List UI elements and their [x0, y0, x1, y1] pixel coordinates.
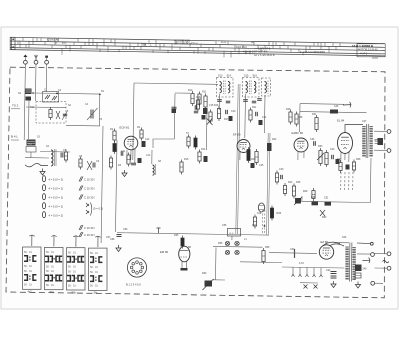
tube ECH81 B4	[124, 136, 138, 150]
svg-text:R20: R20	[251, 158, 256, 161]
tone blob R48	[312, 201, 319, 205]
aerial coil S1	[25, 89, 32, 95]
switch wafer S6c	[89, 248, 108, 290]
fuse	[355, 273, 361, 278]
svg-text:50 · 01: 50 · 01	[68, 271, 76, 274]
osc extra blob	[202, 115, 206, 120]
dial lamp L4	[235, 250, 239, 254]
svg-text:R60: R60	[202, 272, 207, 275]
svg-text:C 10 30 /: C 10 30 /	[84, 196, 95, 200]
wave switch contacts Sa	[43, 92, 59, 103]
svg-text:S6b: S6b	[72, 291, 77, 294]
osc branch blob	[172, 109, 177, 114]
svg-text:L1-4: L1-4	[229, 233, 234, 235]
long vert pair x238	[236, 84, 238, 234]
smoothing caps	[331, 271, 337, 273]
svg-text:R26: R26	[286, 108, 291, 111]
ground smoothing	[333, 281, 335, 284]
resistor R25	[292, 186, 295, 196]
junction	[264, 225, 266, 227]
box S2 shield	[36, 102, 66, 124]
trimmer C3	[62, 110, 68, 120]
cathode blob	[251, 163, 255, 168]
resistor R20	[247, 150, 250, 161]
svg-text:B 1 2 3 4 5 6: B 1 2 3 4 5 6	[126, 283, 141, 287]
ground below S4	[42, 169, 44, 172]
heater taps	[292, 267, 294, 274]
svg-text:50 · 01: 50 · 01	[24, 251, 32, 254]
cluster C30	[275, 173, 278, 182]
svg-text:50 · 01: 50 · 01	[90, 266, 98, 269]
svg-text:R21: R21	[252, 106, 257, 109]
dial scale tick marks	[17, 41, 19, 44]
svg-text:19.0 19.0: 19.0 19.0	[236, 45, 247, 49]
resistor R15	[180, 162, 183, 172]
svg-text:C 10 30 /: C 10 30 /	[84, 178, 95, 182]
svg-text:R38: R38	[356, 158, 361, 161]
aerial terminal A1	[23, 55, 27, 58]
svg-text:C46: C46	[334, 105, 339, 108]
svg-text:C25: C25	[259, 164, 264, 167]
EABC80 pins	[297, 152, 299, 161]
wire osc vert	[205, 110, 208, 150]
tone network wire	[302, 201, 371, 202]
HT bar symbol	[294, 249, 296, 258]
svg-text:E 2/16 h FURWERKE: E 2/16 h FURWERKE	[300, 50, 325, 54]
power transformer S30	[348, 243, 351, 282]
svg-text:C30: C30	[279, 168, 284, 171]
resistor R40	[312, 191, 315, 199]
svg-text:R65: R65	[174, 234, 179, 237]
resistor R6	[113, 144, 116, 152]
resistor R21	[255, 152, 258, 163]
svg-text:R16: R16	[214, 104, 219, 107]
svg-text:WITH 9/4 ROVED H: WITH 9/4 ROVED H	[174, 42, 198, 46]
rail wire y83	[134, 83, 218, 84]
svg-text:B: B	[55, 41, 57, 45]
wire pair x29	[27, 100, 30, 139]
svg-text:R25: R25	[296, 181, 301, 184]
wire plate to transformer	[345, 125, 363, 133]
earth terminal A3	[45, 56, 48, 58]
svg-text:50 · 01: 50 · 01	[68, 266, 76, 269]
tube EABC80 B6	[294, 138, 308, 152]
svg-text:R55: R55	[218, 242, 223, 245]
svg-text:R40: R40	[303, 190, 308, 193]
svg-text:4 = 5 (0 = 2): 4 = 5 (0 = 2)	[49, 205, 64, 209]
screen resistor on bus	[267, 143, 272, 151]
feedback wire y112	[300, 112, 367, 113]
cap C7	[120, 151, 122, 156]
svg-text:C 10 30 /: C 10 30 /	[84, 187, 95, 191]
below IFT1 resistors	[217, 109, 220, 119]
volume pot R33	[319, 151, 322, 164]
svg-text:11 A: 11 A	[221, 40, 226, 44]
wire y107	[26, 106, 66, 109]
wire y158	[25, 157, 49, 159]
ground C66	[118, 245, 120, 248]
svg-text:50 · 01: 50 · 01	[68, 284, 76, 287]
EL84 pins	[340, 152, 342, 162]
wire S3 down	[30, 152, 32, 158]
long vert pair x268	[267, 133, 269, 235]
transformer top terminal	[370, 242, 373, 245]
svg-text:C66: C66	[123, 228, 128, 231]
svg-text:C 10 30 /: C 10 30 /	[84, 233, 95, 237]
svg-text:50 · 01: 50 · 01	[24, 265, 32, 268]
EF89 pin wires	[239, 152, 241, 160]
dashed pair	[261, 210, 263, 233]
mains terminal right bottom	[387, 266, 391, 270]
wire vert x300	[299, 104, 302, 132]
capacitor C12	[194, 105, 196, 110]
resistor R12	[204, 96, 207, 107]
heater bus y268	[282, 267, 345, 268]
svg-text:R31: R31	[312, 113, 317, 116]
svg-text:6,3V: 6,3V	[299, 262, 304, 265]
wire y126	[66, 124, 100, 127]
svg-text:SSA: SSA	[141, 42, 146, 46]
blob C41	[336, 159, 340, 164]
osc loop left vert	[133, 83, 134, 160]
svg-text:C51: C51	[324, 196, 329, 199]
osc extra cap	[194, 110, 198, 112]
cap C13	[172, 106, 177, 108]
cap C36	[313, 141, 315, 146]
tube EL84 B7	[338, 133, 353, 154]
aerial coil tap	[26, 97, 32, 101]
svg-text:C 10 30 /: C 10 30 /	[84, 226, 95, 230]
osc branch vert x175	[173, 94, 176, 134]
detector coil S18	[258, 203, 264, 212]
speaker terminals	[387, 130, 391, 134]
tube socket view B9	[127, 258, 146, 277]
magic eye feed resistor	[181, 238, 184, 246]
dial lamp L2	[235, 241, 239, 245]
svg-text:EL 84: EL 84	[337, 119, 345, 123]
HT wire y253	[269, 252, 317, 255]
chassis dashed border	[6, 67, 385, 298]
resistor R8	[140, 130, 143, 138]
svg-text:R24: R24	[288, 181, 293, 184]
resistor R7	[127, 155, 130, 164]
svg-text:S1b: S1b	[30, 106, 35, 109]
resistor R24	[283, 186, 286, 194]
svg-text:S6a: S6a	[50, 291, 55, 294]
padder caps	[60, 153, 62, 158]
svg-text:4 = 5 (0 = 2): 4 = 5 (0 = 2)	[49, 178, 64, 182]
coil S2 cluster	[49, 110, 52, 118]
svg-text:S13: S13	[218, 75, 223, 78]
ground selector	[357, 282, 359, 285]
svg-text:MOTOR 9.5 R 40: MOTOR 9.5 R 40	[358, 49, 378, 52]
vert to pot	[215, 248, 218, 281]
svg-text:EM 80: EM 80	[160, 250, 169, 254]
svg-text:R58: R58	[265, 246, 270, 249]
rectifier top leads	[323, 242, 344, 246]
cluster R27	[253, 217, 256, 226]
osc coil S7	[187, 137, 190, 146]
svg-text:C36: C36	[310, 138, 315, 141]
svg-text:R37: R37	[337, 158, 342, 161]
svg-text:EF 89: EF 89	[233, 133, 241, 137]
resistor R11	[198, 94, 201, 104]
svg-text:R14: R14	[201, 148, 206, 151]
svg-text:C20: C20	[231, 110, 236, 113]
output transformer S24	[365, 124, 368, 158]
tube pins wires	[126, 150, 128, 163]
svg-text:S15: S15	[244, 75, 249, 78]
svg-text:50 · 01: 50 · 01	[46, 270, 54, 273]
svg-text:ECH 81: ECH 81	[120, 126, 130, 130]
blob grid cap	[142, 141, 146, 147]
svg-text:C11: C11	[121, 150, 126, 153]
svg-text:R10: R10	[188, 89, 193, 92]
transformer top lead	[334, 242, 349, 244]
curved return wire	[25, 163, 48, 166]
svg-text:4 = 5 (0 = 2): 4 = 5 (0 = 2)	[49, 196, 64, 200]
dial scale left box	[10, 37, 15, 49]
svg-text:C12: C12	[145, 138, 150, 141]
svg-text:R50: R50	[322, 216, 327, 219]
svg-text:A20 34 2 97 %2F 5%: A20 34 2 97 %2F 5%	[243, 50, 268, 54]
svg-text:C24: C24	[262, 116, 267, 119]
x marks	[304, 285, 308, 289]
bass pot	[295, 198, 301, 204]
svg-text:S14: S14	[227, 75, 232, 78]
resistor R34	[325, 153, 328, 165]
below IFT2 resistors	[249, 110, 252, 120]
svg-text:50 · 01: 50 · 01	[46, 265, 54, 268]
svg-text:C66: C66	[110, 238, 115, 241]
resistor R14	[198, 152, 201, 161]
dial lamp L1	[225, 241, 229, 245]
IF transformer S13/S14	[217, 78, 234, 98]
switch wafer S6b	[67, 248, 86, 290]
svg-text:TS 2: TS 2	[12, 104, 19, 108]
svg-text:50 · 01: 50 · 01	[46, 284, 54, 287]
tube EF89 B5	[237, 140, 250, 153]
svg-text:C67: C67	[106, 236, 111, 239]
third IF coil	[262, 78, 271, 96]
svg-text:4 = 5 (0 = 2): 4 = 5 (0 = 2)	[49, 214, 64, 218]
svg-text:R17: R17	[224, 118, 229, 121]
dial scale band	[10, 37, 385, 43]
blob grid	[138, 158, 142, 163]
svg-text:42 V 6 4/0 48 R B: 42 V 6 4/0 48 R B	[254, 53, 275, 57]
feedback blob	[330, 110, 338, 114]
svg-text:S16: S16	[253, 75, 258, 78]
resistor R10	[191, 94, 194, 104]
wire y262	[240, 261, 282, 264]
svg-text:4 = 5 (0 = 2): 4 = 5 (0 = 2)	[49, 187, 64, 191]
mains terminal mid	[371, 253, 375, 257]
band right text block	[357, 44, 385, 57]
wire grid top	[33, 93, 100, 94]
cap C66	[117, 234, 122, 236]
resistor R31 top	[315, 118, 318, 130]
EM80 pins	[181, 262, 183, 268]
wire avc y233	[117, 233, 269, 235]
svg-text:C62: C62	[326, 269, 331, 272]
legend brace group	[86, 203, 89, 207]
svg-text:C56: C56	[222, 224, 227, 227]
svg-text:R30: R30	[277, 212, 282, 215]
svg-text:S18: S18	[257, 212, 262, 215]
svg-text:R33: R33	[318, 145, 323, 148]
band coil block S3	[27, 140, 36, 146]
bus wire down x103	[101, 126, 103, 243]
det cluster resistors	[289, 112, 292, 122]
phono arrow	[343, 104, 351, 106]
bus wire down x117	[116, 140, 118, 232]
svg-text:4x5: 4x5	[28, 291, 33, 294]
svg-text:50 · 01: 50 · 01	[90, 252, 98, 255]
svg-text:R11: R11	[202, 91, 207, 94]
svg-text:677: 677	[62, 41, 67, 45]
variable capacitor C4	[90, 110, 92, 119]
mains terminal right top	[387, 252, 391, 256]
svg-text:C14: C14	[146, 154, 151, 157]
tone sub cluster	[320, 210, 325, 216]
coil legend column 2	[79, 177, 83, 182]
blob C44	[346, 165, 350, 170]
aerial terminal A2	[35, 55, 37, 61]
rectifier tube EZ80 B10	[319, 245, 333, 259]
svg-text:4Y R 2: 4Y R 2	[360, 53, 368, 56]
svg-text:50 · 01: 50 · 01	[90, 271, 98, 274]
tone blob C51	[325, 202, 332, 206]
svg-text:13 R 1 20838 B: 13 R 1 20838 B	[352, 44, 374, 48]
svg-text:50 · 01: 50 · 01	[90, 285, 98, 288]
wire vert right	[98, 94, 101, 126]
trimmers H	[79, 159, 82, 167]
svg-text:R22: R22	[272, 138, 277, 141]
coupling cap C40	[331, 155, 333, 159]
wire vert x152	[151, 150, 153, 164]
resistor R38	[352, 162, 355, 170]
svg-text:(2): (2)	[251, 40, 254, 44]
svg-text:EABC 80: EABC 80	[292, 131, 304, 135]
resistor R58	[262, 251, 265, 262]
mains wave symbol	[383, 260, 389, 263]
mixer out cluster	[196, 100, 199, 109]
pot wires	[213, 279, 225, 281]
dial lamp box	[228, 229, 241, 237]
svg-text:50 · 01: 50 · 01	[24, 284, 32, 287]
aux terminal bottom	[371, 281, 375, 285]
legend extra rows	[79, 225, 83, 230]
secondary return vert	[369, 158, 372, 203]
svg-text:C47: C47	[362, 120, 367, 123]
heater wire y247	[213, 245, 263, 248]
svg-text:50 · 01: 50 · 01	[68, 252, 76, 255]
osc section coil	[153, 165, 155, 175]
resistor R5	[113, 131, 116, 140]
svg-text:C16: C16	[196, 96, 201, 99]
cap C8	[131, 162, 136, 164]
junction mark	[157, 228, 161, 233]
wire y152	[40, 151, 70, 154]
switch wafer S6a	[45, 247, 64, 289]
svg-text:C60: C60	[290, 248, 295, 251]
wire phono y104	[300, 103, 344, 106]
svg-text:240: 240	[363, 268, 368, 271]
dial lamp L3	[225, 250, 229, 254]
svg-text:C40: C40	[330, 148, 335, 151]
voltage selector	[355, 265, 362, 272]
coil legend column 1	[42, 176, 45, 182]
svg-text:CONS.45: CONS.45	[47, 37, 59, 41]
mains arrow	[363, 259, 371, 261]
pot wire	[301, 196, 303, 202]
heater drop dashes	[340, 172, 342, 190]
resistor R30 dark	[270, 208, 273, 218]
lamp wires	[231, 236, 233, 240]
ground mixer	[124, 170, 126, 173]
svg-text:S30: S30	[342, 236, 347, 239]
svg-text:C28: C28	[298, 116, 303, 119]
speaker	[378, 138, 384, 145]
cathode resistor R37	[339, 163, 342, 171]
svg-text:50 · 01: 50 · 01	[46, 251, 54, 254]
svg-text:50 · 01: 50 · 01	[24, 270, 32, 273]
svg-text:R15: R15	[184, 158, 189, 161]
svg-text:S6c: S6c	[94, 292, 99, 295]
svg-text:R27: R27	[252, 224, 257, 227]
IF drop wires	[218, 94, 220, 110]
osc branch corner	[153, 133, 174, 148]
tone pot R60	[205, 281, 213, 287]
osc coil S4	[51, 150, 53, 166]
resistor R5b	[109, 158, 112, 167]
svg-text:B 4 L: B 4 L	[11, 135, 18, 139]
switch wafer 4x5	[23, 247, 42, 289]
IF transformer S15/S16	[243, 78, 260, 98]
tube EM80 B8	[179, 246, 190, 262]
